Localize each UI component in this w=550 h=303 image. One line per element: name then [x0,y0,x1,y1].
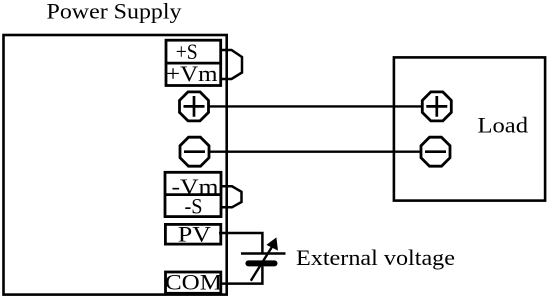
terminal box COM [166,272,221,293]
terminal + (load input plus) [422,92,451,121]
minus sign in PS terminal [184,150,205,153]
sense terminal block +S/+Vm [166,40,221,85]
terminal box PV [165,224,220,244]
variable arrow head [266,237,278,250]
terminal - (load input minus) [421,137,450,166]
svg-text:Load: Load [478,113,529,138]
svg-text:+Vm: +Vm [166,61,218,86]
monitor terminal block -Vm/-S [165,172,221,216]
svg-text:COM: COM [165,270,222,295]
terminal + (power supply output plus) [180,92,209,121]
variable arrow shaft [251,245,273,281]
wire PV to external voltage source [219,233,262,254]
jumper bracket +S to +Vm [222,50,242,79]
wire - (PS minus terminal to Load minus terminal) [205,150,425,152]
external voltage source negative plate [245,260,277,266]
power supply box [4,35,227,295]
load box [394,57,545,200]
jumper bracket -Vm to -S [222,186,242,207]
wire COM to external voltage source [220,266,262,283]
minus sign in load terminal [425,150,446,153]
terminal - (power supply output minus) [180,137,209,166]
external voltage source positive plate [241,252,286,255]
plus sign in PS terminal [184,96,205,117]
wire + (PS plus terminal to Load plus terminal) [205,105,425,107]
plus sign in load terminal [426,96,447,117]
svg-text:Power Supply: Power Supply [47,0,182,24]
svg-text:-S: -S [185,194,203,219]
svg-text:PV: PV [178,222,211,247]
svg-text:External voltage: External voltage [296,245,455,270]
